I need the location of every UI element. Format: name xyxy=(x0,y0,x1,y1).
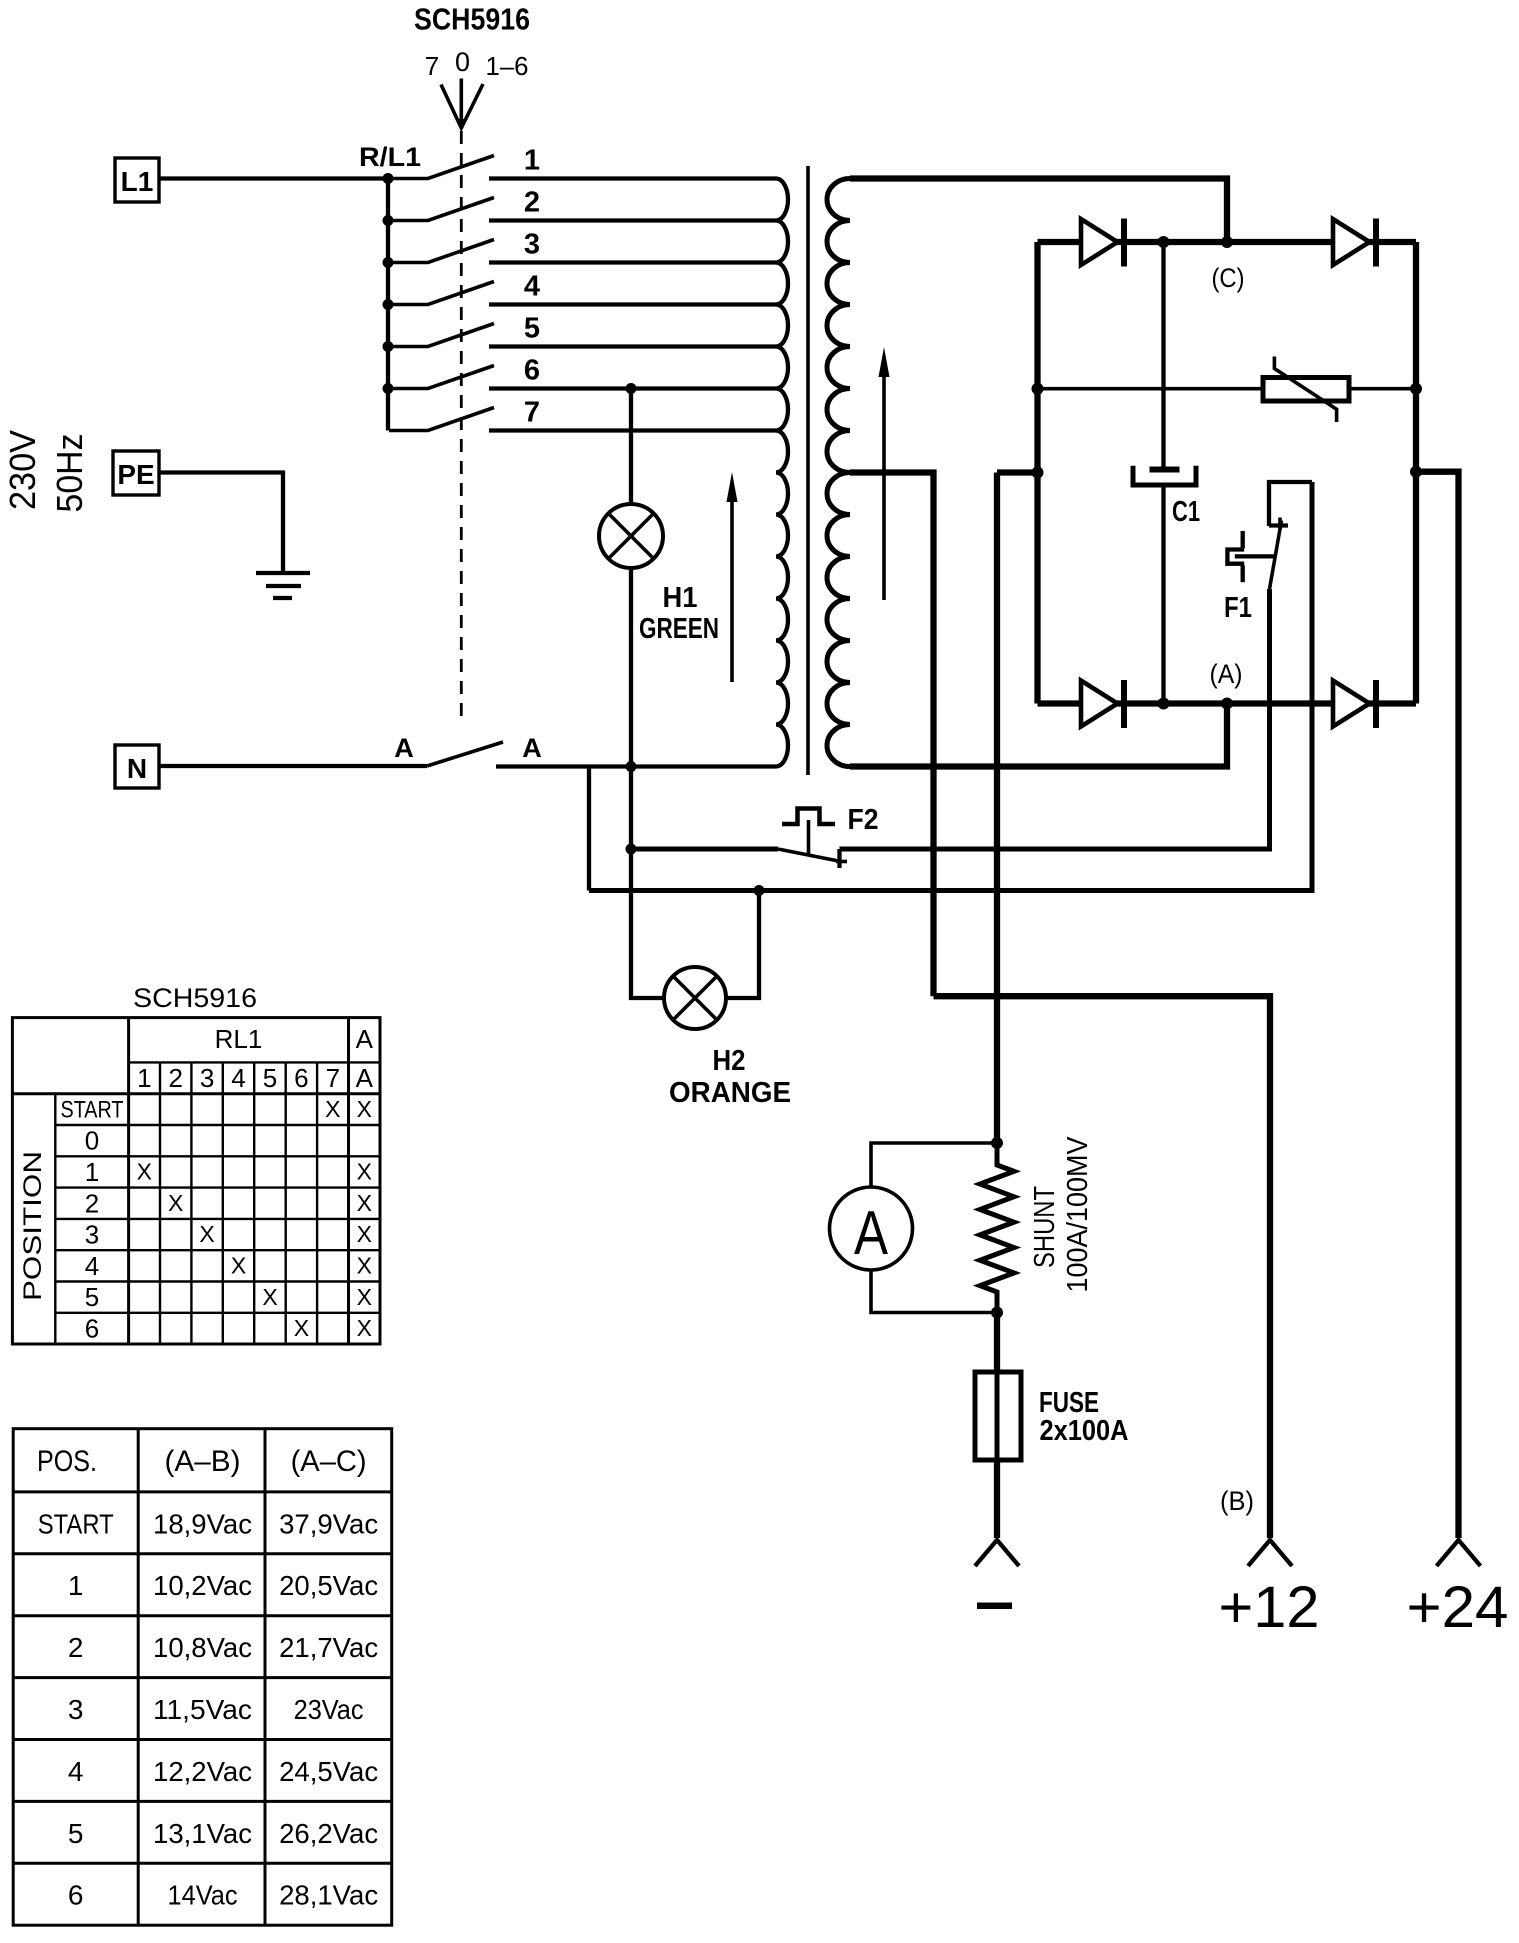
wire L1 to switch common xyxy=(159,176,388,180)
svg-text:RL1: RL1 xyxy=(215,1024,263,1054)
contact wire 7 xyxy=(489,428,776,432)
svg-text:X: X xyxy=(357,1096,372,1122)
transformer T1 secondary winding xyxy=(827,179,850,767)
switch blade 4 xyxy=(389,282,494,305)
svg-text:6: 6 xyxy=(294,1063,308,1093)
terminal box N xyxy=(115,745,159,788)
junction dot varistor right xyxy=(1410,383,1422,395)
svg-text:(B): (B) xyxy=(1220,1486,1254,1516)
junction dot varistor left xyxy=(1032,383,1044,395)
svg-text:A: A xyxy=(854,1199,889,1268)
svg-text:A: A xyxy=(522,733,542,763)
switch blade 6 xyxy=(389,366,494,389)
svg-text:(A): (A) xyxy=(1210,659,1243,689)
svg-text:A: A xyxy=(356,1024,374,1054)
svg-text:6: 6 xyxy=(85,1314,99,1344)
svg-text:X: X xyxy=(231,1253,246,1279)
wire H1 lower xyxy=(629,568,633,849)
svg-text:4: 4 xyxy=(231,1063,245,1093)
svg-text:POS.: POS. xyxy=(37,1445,97,1478)
svg-text:+24: +24 xyxy=(1407,1575,1509,1640)
secondary voltage arrow xyxy=(882,377,886,600)
svg-text:A: A xyxy=(394,733,414,763)
svg-text:X: X xyxy=(357,1284,372,1310)
svg-text:11,5Vac: 11,5Vac xyxy=(153,1694,252,1725)
svg-text:6: 6 xyxy=(68,1880,84,1911)
ammeter branch top xyxy=(871,1143,997,1187)
wire F2 left xyxy=(631,847,778,852)
svg-text:PE: PE xyxy=(117,459,154,490)
diode D3 (bottom left) xyxy=(1081,681,1118,727)
wire minus rail down xyxy=(994,473,1000,1144)
diode D4 (bottom right) xyxy=(1333,681,1370,727)
F1 blade xyxy=(1270,521,1282,590)
terminal box L1 xyxy=(115,158,159,202)
svg-text:X: X xyxy=(325,1096,340,1122)
junction dot shunt top xyxy=(991,1137,1003,1149)
svg-text:21,7Vac: 21,7Vac xyxy=(279,1632,378,1663)
svg-text:23Vac: 23Vac xyxy=(294,1694,364,1725)
svg-text:5: 5 xyxy=(85,1282,99,1312)
svg-text:3: 3 xyxy=(68,1694,84,1725)
node (C) dot xyxy=(1221,236,1233,248)
capacitor C1 bottom plate xyxy=(1133,466,1196,485)
circuit breaker F1 frame xyxy=(1269,482,1312,526)
svg-text:14Vac: 14Vac xyxy=(168,1880,238,1911)
svg-text:10,2Vac: 10,2Vac xyxy=(153,1570,252,1601)
rotary selector arrowhead xyxy=(456,119,466,129)
svg-text:X: X xyxy=(168,1190,183,1216)
svg-text:X: X xyxy=(357,1315,372,1341)
svg-text:F1: F1 xyxy=(1224,592,1252,624)
svg-text:POSITION: POSITION xyxy=(19,1151,47,1301)
+24 output fork xyxy=(1437,1540,1481,1566)
svg-text:SCH5916: SCH5916 xyxy=(133,983,257,1013)
svg-text:X: X xyxy=(294,1315,309,1341)
capacitor C1 wire upper xyxy=(1161,242,1165,467)
voltage table header xyxy=(37,1445,367,1478)
svg-text:24,5Vac: 24,5Vac xyxy=(279,1756,378,1787)
svg-text:18,9Vac: 18,9Vac xyxy=(153,1508,252,1539)
svg-text:(A–C): (A–C) xyxy=(291,1445,367,1478)
bridge rectifier bottom rail xyxy=(1038,700,1417,706)
svg-text:X: X xyxy=(357,1190,372,1216)
wire F2 to F1 blade xyxy=(840,589,1270,849)
svg-text:50Hz: 50Hz xyxy=(49,434,90,513)
pushbutton F2 blade xyxy=(778,849,841,862)
ground symbol xyxy=(256,571,310,575)
pushbutton F2 stem xyxy=(807,820,811,855)
fuse F3 body xyxy=(995,1372,1000,1460)
svg-text:0: 0 xyxy=(455,47,470,77)
svg-text:H2: H2 xyxy=(713,1045,746,1077)
svg-text:1: 1 xyxy=(137,1063,151,1093)
svg-text:START: START xyxy=(61,1096,124,1123)
svg-text:ORANGE: ORANGE xyxy=(669,1077,791,1109)
svg-text:C1: C1 xyxy=(1172,496,1200,528)
switch A blade xyxy=(427,742,503,766)
table SCH5916 grid xyxy=(12,1018,380,1344)
wire H2 right xyxy=(726,891,759,999)
svg-text:N: N xyxy=(127,753,147,784)
svg-text:X: X xyxy=(199,1221,214,1247)
svg-text:(C): (C) xyxy=(1212,263,1245,293)
wire N-side to primary bottom xyxy=(496,764,776,768)
svg-text:F2: F2 xyxy=(848,804,879,836)
svg-text:START: START xyxy=(38,1508,114,1539)
junction dot H1/F2 wire xyxy=(626,844,637,855)
junction dot H1/N wire xyxy=(626,761,637,772)
svg-text:100A/100MV: 100A/100MV xyxy=(1062,1136,1094,1293)
wire shunt to fuse xyxy=(994,1313,1000,1373)
svg-text:SHUNT: SHUNT xyxy=(1029,1186,1061,1268)
svg-text:X: X xyxy=(357,1221,372,1247)
svg-text:(A–B): (A–B) xyxy=(165,1445,241,1478)
svg-text:28,1Vac: 28,1Vac xyxy=(279,1880,378,1911)
svg-text:2: 2 xyxy=(68,1632,84,1663)
row labels xyxy=(61,1096,124,1123)
svg-text:7: 7 xyxy=(524,397,540,429)
svg-text:2x100A: 2x100A xyxy=(1040,1415,1129,1447)
secondary bottom tap wire to bridge (A) xyxy=(850,704,1227,767)
contact wire 5 xyxy=(489,344,776,348)
wire H1 upper xyxy=(629,389,633,505)
junction dot C1 bottom xyxy=(1158,698,1170,710)
svg-text:X: X xyxy=(357,1253,372,1279)
svg-text:GREEN: GREEN xyxy=(639,613,719,645)
svg-text:20,5Vac: 20,5Vac xyxy=(279,1570,378,1601)
svg-text:2: 2 xyxy=(85,1188,99,1218)
wire N bus to F1 frame xyxy=(589,482,1312,891)
shunt resistor zigzag xyxy=(980,1143,1014,1313)
node (A) dot xyxy=(1221,698,1233,710)
svg-text:37,9Vac: 37,9Vac xyxy=(279,1508,378,1539)
F1 contact wire xyxy=(1235,554,1276,558)
F2 fixed contact xyxy=(837,849,841,868)
svg-text:7: 7 xyxy=(425,51,439,81)
lamp H1 xyxy=(599,504,663,568)
svg-text:X: X xyxy=(137,1159,152,1185)
junction dot C1 top xyxy=(1158,236,1170,248)
varistor wire right xyxy=(1349,387,1416,391)
capacitor C1 top plate xyxy=(1150,467,1180,473)
svg-text:6: 6 xyxy=(524,355,540,387)
F1 fixed contact bracket xyxy=(1241,531,1245,548)
svg-text:3: 3 xyxy=(524,229,540,261)
svg-text:A: A xyxy=(356,1063,374,1093)
wire branch down from N wire xyxy=(587,767,591,891)
svg-text:4: 4 xyxy=(85,1251,99,1281)
wire N to switch A xyxy=(159,764,427,768)
svg-text:SCH5916: SCH5916 xyxy=(414,2,530,37)
svg-text:1: 1 xyxy=(68,1570,84,1601)
voltage table grid xyxy=(13,1429,392,1926)
secondary top tap wire to bridge (C) xyxy=(850,179,1227,243)
svg-text:5: 5 xyxy=(263,1063,277,1093)
bridge rectifier right leg xyxy=(1413,242,1419,704)
svg-text:5: 5 xyxy=(524,313,540,345)
table subheader 1-7,A xyxy=(137,1063,374,1093)
wire +12 rail xyxy=(934,996,1271,1538)
switch blade 5 xyxy=(389,324,494,347)
rotary switch RL1 common bus xyxy=(386,179,390,431)
switch blade 3 xyxy=(389,240,494,263)
svg-text:1: 1 xyxy=(524,145,540,177)
contact wire 6 xyxy=(489,386,776,390)
svg-text:X: X xyxy=(262,1284,277,1310)
svg-text:1: 1 xyxy=(85,1157,99,1187)
rotary selector arrow shaft xyxy=(459,79,463,123)
svg-text:R/L1: R/L1 xyxy=(359,142,421,172)
svg-text:5: 5 xyxy=(68,1818,84,1849)
svg-text:2: 2 xyxy=(524,187,540,219)
label minus xyxy=(977,1603,1012,1610)
X marks xyxy=(137,1096,372,1341)
svg-text:0: 0 xyxy=(85,1126,99,1156)
svg-text:H1: H1 xyxy=(663,582,698,614)
switch blade 1 xyxy=(389,156,494,179)
junction dot shunt bottom xyxy=(991,1307,1003,1319)
secondary middle tap wire xyxy=(850,473,934,997)
varistor diagonal xyxy=(1274,357,1336,423)
rotary selector symbol V xyxy=(441,84,483,128)
svg-text:X: X xyxy=(357,1159,372,1185)
ammeter A1 xyxy=(830,1187,913,1270)
svg-text:3: 3 xyxy=(200,1063,214,1093)
wire 12V tap to bridge left leg xyxy=(997,469,1038,475)
switch blade 7 xyxy=(389,408,494,431)
svg-text:230V: 230V xyxy=(2,430,43,510)
wire fuse to minus output xyxy=(994,1460,1000,1538)
primary voltage arrow xyxy=(730,502,734,682)
bridge rectifier left leg xyxy=(1034,242,1040,704)
voltage table rows xyxy=(38,1508,378,1910)
contact wire 4 xyxy=(489,302,776,306)
junction dot wire6 / H1 xyxy=(626,383,637,394)
terminal box PE xyxy=(113,451,159,495)
bridge rectifier top rail xyxy=(1038,239,1417,245)
switch blade 2 xyxy=(389,198,494,221)
wire +24 takeoff xyxy=(1416,472,1459,1538)
wire PE to earth xyxy=(159,473,283,574)
capacitor C1 wire lower xyxy=(1161,487,1165,704)
transformer core xyxy=(806,166,810,775)
F1 blade top contact xyxy=(1269,523,1288,527)
varistor wire left xyxy=(1038,387,1264,391)
svg-text:2: 2 xyxy=(168,1063,182,1093)
wire H1 to H2 xyxy=(631,849,664,998)
diode D1 (top left) xyxy=(1081,219,1118,265)
dashed ganged-switch linkage line xyxy=(460,131,463,718)
junction dot H2 / N bus xyxy=(754,885,765,896)
svg-text:3: 3 xyxy=(85,1220,99,1250)
lamp H2 xyxy=(664,967,726,1029)
contact wire 2 xyxy=(489,218,776,222)
svg-text:26,2Vac: 26,2Vac xyxy=(279,1818,378,1849)
transformer T1 primary winding xyxy=(776,179,788,767)
contact wire 3 xyxy=(489,260,776,264)
minus output fork xyxy=(975,1540,1019,1566)
svg-text:1–6: 1–6 xyxy=(486,51,529,81)
svg-text:+12: +12 xyxy=(1219,1575,1320,1640)
+12 output fork xyxy=(1248,1540,1292,1566)
ammeter branch bottom xyxy=(871,1270,997,1313)
diode D2 (top right) xyxy=(1333,219,1370,265)
svg-text:7: 7 xyxy=(326,1063,340,1093)
svg-text:10,8Vac: 10,8Vac xyxy=(153,1632,252,1663)
svg-text:4: 4 xyxy=(524,271,540,303)
svg-text:4: 4 xyxy=(68,1756,84,1787)
svg-text:12,2Vac: 12,2Vac xyxy=(153,1756,252,1787)
svg-text:L1: L1 xyxy=(121,166,154,197)
svg-text:13,1Vac: 13,1Vac xyxy=(153,1818,252,1849)
pushbutton F2 cap xyxy=(782,809,835,825)
junction dots on common bus xyxy=(383,173,394,184)
varistor body xyxy=(1263,378,1349,402)
contact wire 1 to transformer tap xyxy=(489,176,776,180)
